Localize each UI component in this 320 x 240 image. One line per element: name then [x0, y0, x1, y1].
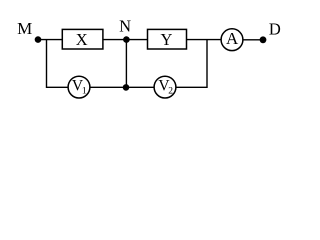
- svg-text:M: M: [17, 19, 32, 38]
- node N: [123, 36, 130, 43]
- svg-text:Y: Y: [161, 30, 173, 49]
- resistor box Y: [148, 29, 187, 49]
- wire: V2 right up to top wire branch: [176, 40, 207, 88]
- wire: ammeter A to terminal D: [243, 39, 264, 41]
- terminal M: [35, 36, 42, 43]
- svg-text:X: X: [76, 30, 88, 49]
- wire: V1 to junction under N: [90, 86, 127, 88]
- wire: Y box to ammeter A: [186, 39, 222, 41]
- terminal D: [260, 36, 267, 43]
- voltmeter V2: [154, 76, 176, 98]
- svg-text:2: 2: [168, 86, 173, 96]
- voltmeter V1: [68, 76, 90, 98]
- svg-text:1: 1: [82, 86, 87, 96]
- ammeter A: [221, 29, 243, 51]
- wire: junction to V2: [126, 86, 154, 88]
- wire: node N down to bottom junction: [125, 40, 127, 88]
- wire: left branch down from top wire to V1 loop: [47, 40, 69, 88]
- resistor box X: [62, 29, 103, 49]
- svg-text:N: N: [119, 17, 131, 36]
- junction on bottom wire under N: [123, 84, 130, 91]
- wire: X box to Y box through node N: [103, 39, 149, 41]
- svg-text:A: A: [226, 29, 239, 48]
- wire: M to X box: [38, 39, 63, 41]
- svg-text:D: D: [269, 20, 281, 39]
